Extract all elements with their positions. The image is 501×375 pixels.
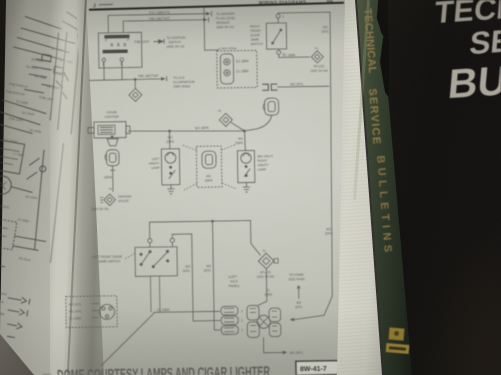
cover big title — [368, 0, 501, 375]
T2 splice diamond — [258, 253, 274, 269]
label W2 20YL right side — [325, 227, 333, 236]
left page text blobs mid — [0, 3, 94, 303]
book cover (black, right) — [368, 0, 501, 375]
dome lamp — [257, 315, 270, 328]
spine title SERVICE — [366, 88, 384, 169]
kick panel connector stack — [221, 306, 238, 315]
left page vertical bus — [42, 31, 89, 135]
fore-edge page stack — [330, 0, 390, 375]
connector body — [220, 54, 233, 84]
right front door jamb switch note — [250, 24, 263, 46]
note TO IGNITION SWITCH — [166, 36, 185, 49]
dome lamp bottom wire — [263, 337, 282, 353]
long wire W2 right side — [278, 12, 335, 320]
wire B — [172, 234, 220, 322]
note LEFT VANITY LAMP — [148, 157, 159, 170]
wire F86 18DT/WT — [123, 20, 203, 33]
gutter seam line — [67, 0, 87, 375]
left page connector arrows — [5, 295, 30, 317]
note TO LCD ILLUMINATION — [173, 75, 195, 88]
left jamb switch terminals — [148, 239, 152, 243]
Z1 20BK wire from gutter — [100, 311, 221, 366]
cigar lighter body — [94, 122, 126, 139]
left page top wires — [13, 15, 78, 61]
connector bar 2 — [103, 50, 128, 54]
splice diamond below junction — [134, 79, 136, 88]
note GROUND SPLICE — [91, 194, 132, 211]
connector bar 1 — [104, 35, 129, 39]
ground right vanity — [243, 183, 250, 193]
wire from pouch to junction — [245, 115, 272, 131]
wire from header to in-line connector — [204, 7, 219, 50]
cigar lighter label — [105, 110, 120, 119]
labels W2 20YL pair — [183, 264, 212, 273]
switch contacts — [272, 29, 282, 44]
left page mid cluster symbols — [24, 58, 59, 95]
terminal circles — [102, 58, 105, 61]
left page lower dashed box — [0, 215, 17, 250]
wire F85 18DT/WT — [89, 79, 161, 81]
right vanity lamp drop — [244, 131, 247, 151]
cigar lighter ground wire — [110, 166, 115, 192]
green spine — [350, 0, 416, 375]
page header rule — [89, 3, 344, 10]
left page motor circle — [0, 175, 13, 196]
wire T2 to dome lamp — [257, 269, 267, 306]
spine title TECHNICAL — [361, 8, 380, 99]
left page mid wires — [0, 99, 47, 135]
left page switch pair — [27, 157, 48, 183]
in-line connector on W2 wire — [262, 84, 277, 90]
kick panel note — [228, 275, 239, 288]
jamb switch riser wires — [150, 220, 261, 257]
wire K1C 18BK/TN — [108, 14, 206, 33]
dashed leaders — [181, 144, 236, 191]
ignition switch connector box — [98, 32, 142, 68]
left vanity lamp drop — [169, 131, 171, 149]
ground left vanity — [167, 185, 174, 194]
left page — [0, 0, 112, 375]
pouch connector — [264, 98, 278, 115]
backdrop table bottom-left — [0, 300, 120, 375]
wire C — [213, 221, 221, 330]
main right page — [80, 0, 360, 375]
splice diamond T6 — [219, 113, 232, 126]
spine worn edge marks — [374, 0, 388, 40]
splice diamond T2 upper — [311, 51, 323, 63]
gutter connector circle — [99, 304, 114, 319]
x marks — [111, 43, 126, 46]
note TO WASHER FLUID LEVEL SENSOR — [216, 12, 236, 30]
vanity feed wire W1 20PK — [128, 129, 245, 133]
note SPLICE SEE SH 39 — [257, 270, 274, 279]
right jamb switch box — [266, 23, 286, 49]
left page component box — [0, 139, 25, 174]
left page lower bus wires — [0, 228, 46, 300]
in-line connector dashed box — [217, 50, 258, 88]
spine gold label upper — [389, 327, 405, 340]
gutter connector dashed box — [66, 296, 118, 328]
spine title BULLETINS — [374, 155, 395, 276]
spine gold label lower — [386, 343, 410, 354]
left vanity lamp — [161, 149, 180, 185]
left page amplifier triangle — [76, 18, 105, 42]
ground splice diamonds — [104, 194, 116, 206]
wire Z1 18BK to splice — [279, 54, 310, 58]
sheet number box — [296, 361, 339, 375]
junction — [134, 78, 137, 81]
shadow gap between pages and spine — [350, 0, 390, 375]
note RIGHT VANITY LAMP — [257, 154, 273, 171]
note TO CHIME — [288, 273, 304, 282]
right vanity lamp — [237, 150, 255, 182]
label W2 20YL top right — [321, 25, 329, 34]
gutter shading — [50, 0, 110, 375]
cigar lighter connector pouch — [106, 150, 119, 166]
middle dashed connector box — [196, 146, 222, 187]
left front door jamb switch box — [135, 247, 177, 277]
note LEFT FRONT DOOR JAMB SWITCH — [92, 255, 123, 264]
